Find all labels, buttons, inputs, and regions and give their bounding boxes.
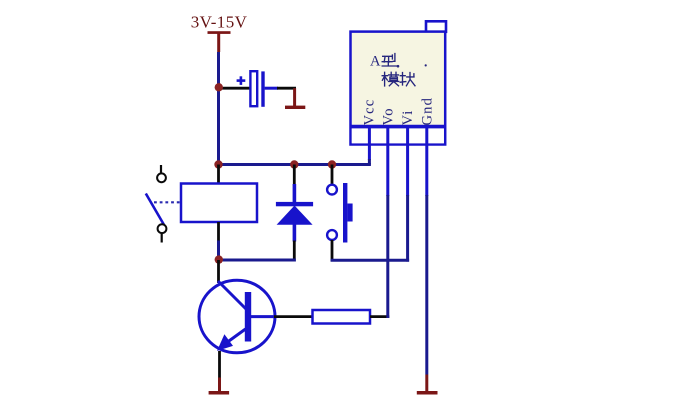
- transistor Q1 emitter stroke: [222, 329, 246, 346]
- wire: relay coil down (black): [217, 222, 220, 242]
- power rail bar: [208, 31, 231, 34]
- wire: rail to relay coil (black): [217, 165, 220, 185]
- module label CJK 块: [400, 73, 415, 86]
- wire: rail to pushbutton (black): [331, 165, 334, 186]
- wire: Vcc pin down to rail: [368, 159, 371, 165]
- wire: top rail: [217, 163, 371, 166]
- diode D1 anode lead (blue): [293, 224, 297, 242]
- module U1 pin strip: [352, 128, 444, 143]
- ground (capacitor): [293, 88, 296, 106]
- switch S1 blade: [146, 194, 164, 225]
- switch S1 top terminal: [157, 173, 166, 182]
- module U1 notch: [426, 21, 446, 32]
- pushbutton SB1 top terminal: [327, 185, 337, 195]
- diode D1 cathode lead (blue): [293, 184, 297, 202]
- wire: Vi pin down: [406, 195, 409, 262]
- module label stray dot: [425, 64, 427, 66]
- pin 1 Vcc stub: [368, 128, 371, 160]
- ground (emitter): [209, 391, 230, 395]
- pushbutton SB1 bottom terminal: [327, 230, 337, 240]
- svg-text:Vcc: Vcc: [362, 99, 378, 126]
- capacitor C1 plus sign: [237, 79, 246, 82]
- wire: Gnd ground stem (maroon): [425, 375, 428, 392]
- wire: relay coil to bottom junction (navy): [217, 241, 220, 260]
- module label CJK 模: [382, 72, 399, 86]
- ground (module Gnd): [417, 391, 438, 395]
- wire: emitter ground stem (maroon): [218, 378, 221, 392]
- svg-text:3V-15V: 3V-15V: [191, 13, 248, 32]
- wire: Vi to pushbutton bottom: [331, 259, 410, 262]
- wire: Vo pin riser: [386, 195, 389, 318]
- relay K1 coil box: [181, 184, 257, 223]
- wire: base to resistor (black): [274, 315, 313, 318]
- switch S1 bottom terminal: [158, 224, 167, 233]
- module U1 body: [351, 32, 446, 145]
- resistor R1: [313, 310, 371, 324]
- wire: rail to diode cathode (black): [293, 165, 296, 186]
- pin 3 Vi stub: [406, 128, 409, 196]
- pushbutton SB1 bar: [343, 183, 347, 243]
- transistor Q1 body circle: [199, 280, 275, 353]
- pin 4 Gnd stub: [425, 128, 428, 196]
- node: rail-relay junction: [214, 160, 222, 168]
- node A (junction dot at capacitor tap): [215, 83, 223, 91]
- pin 2 Vo stub: [386, 128, 389, 196]
- wire: diode anode down (black): [293, 241, 296, 259]
- node: relay/diode/collector junction: [215, 255, 223, 263]
- transistor Q1 collector stroke: [218, 281, 247, 310]
- wire: junction down to transistor collector (black): [217, 260, 220, 283]
- module label dot: [397, 65, 400, 68]
- wire: pushbutton bottom down (black): [331, 240, 334, 261]
- module U1 inner line: [350, 125, 447, 129]
- diode D1 cathode bar: [276, 202, 313, 206]
- node: rail-switch junction: [328, 160, 336, 168]
- svg-text:Vo: Vo: [381, 107, 397, 125]
- transistor Q1 base bar: [245, 292, 251, 342]
- transistor Q1 base lead (blue inside circle): [251, 315, 275, 318]
- wire: junction to capacitor (black): [219, 87, 250, 90]
- switch S1 top stem: [160, 165, 162, 174]
- svg-text:A: A: [370, 54, 381, 70]
- wire: resistor to Vo riser (black): [370, 315, 389, 318]
- wire: Gnd pin down: [425, 195, 428, 375]
- capacitor C1 plates: [250, 71, 257, 106]
- switch S1 linkage (dashed): [154, 201, 180, 203]
- node: rail-diode junction: [290, 160, 298, 168]
- pushbutton SB1 knob: [347, 204, 352, 222]
- diode D1 triangle: [277, 206, 313, 225]
- wire: supply vertical to rail: [217, 52, 220, 165]
- svg-text:Vi: Vi: [400, 109, 416, 125]
- switch S1 bottom stem: [161, 233, 163, 243]
- power stem (maroon): [217, 33, 220, 52]
- module label CJK 型: [382, 54, 396, 66]
- svg-text:Gnd: Gnd: [420, 97, 436, 126]
- transistor Q1 emitter arrow: [217, 334, 233, 351]
- wire: relay-bottom to diode-bottom (navy): [219, 259, 296, 262]
- wire: emitter down (black): [218, 351, 221, 378]
- wire: capacitor to ground (blue then black): [265, 87, 278, 90]
